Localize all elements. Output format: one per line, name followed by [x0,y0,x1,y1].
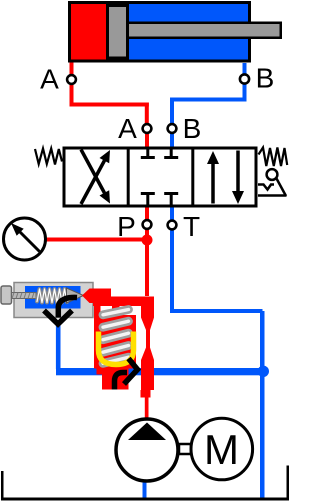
svg-text:A: A [118,113,137,144]
svg-text:T: T [183,211,200,242]
svg-text:B: B [256,63,275,94]
svg-text:B: B [183,113,202,144]
svg-text:P: P [117,211,136,242]
svg-text:A: A [40,64,59,95]
svg-text:M: M [204,426,239,473]
